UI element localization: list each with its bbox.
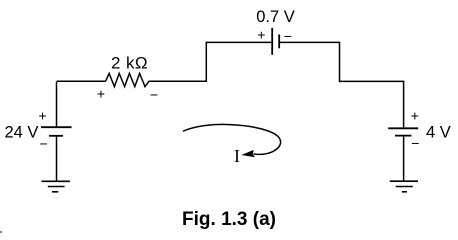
battery V2 24V short plate <box>49 135 63 137</box>
wire top-right horizontal <box>279 41 340 43</box>
svg-text:0.7 V: 0.7 V <box>256 8 295 26</box>
svg-text:−: − <box>411 135 419 151</box>
battery V2 24V long plate <box>41 126 72 128</box>
wire left step up <box>205 42 207 82</box>
ground right line1 <box>390 180 418 182</box>
svg-text:I: I <box>234 146 240 166</box>
battery V3 4V short plate <box>395 135 411 137</box>
svg-text:+: + <box>39 108 47 124</box>
ground left line2 <box>48 186 65 188</box>
svg-text:−: − <box>284 28 292 44</box>
ground left line1 <box>42 180 70 182</box>
svg-text:−: − <box>150 87 158 103</box>
battery V1 0.7V long plate <box>271 28 273 55</box>
ground right line3 <box>402 191 407 193</box>
battery V1 0.7V short plate <box>278 34 280 48</box>
svg-text:+: + <box>257 27 265 43</box>
svg-text:+: + <box>97 86 105 102</box>
battery V3 4V long plate <box>388 127 418 129</box>
wire resistor-row left segment <box>57 80 106 82</box>
svg-text:−: − <box>40 136 48 152</box>
svg-text:Fig. 1.3 (a): Fig. 1.3 (a) <box>182 209 276 230</box>
current loop arc <box>183 124 281 154</box>
wire left rail upper <box>56 82 58 127</box>
wire mid-right horizontal <box>339 80 404 82</box>
wire top-left horizontal <box>206 41 272 43</box>
wire right rail lower <box>403 136 405 181</box>
edge artifact speck <box>0 231 2 233</box>
svg-text:4 V: 4 V <box>426 124 451 142</box>
ground right line2 <box>396 186 413 188</box>
svg-text:+: + <box>411 107 419 123</box>
resistor R (2 kOhm) zigzag <box>106 73 149 86</box>
svg-text:24 V: 24 V <box>5 124 39 142</box>
wire right rail upper <box>403 81 405 129</box>
wire right step down <box>339 42 341 81</box>
wire left rail lower <box>56 136 58 182</box>
wire resistor-row right segment <box>149 80 207 82</box>
current loop arrowhead <box>241 150 255 157</box>
ground left line3 <box>52 191 58 193</box>
svg-text:2 kΩ: 2 kΩ <box>111 53 148 72</box>
